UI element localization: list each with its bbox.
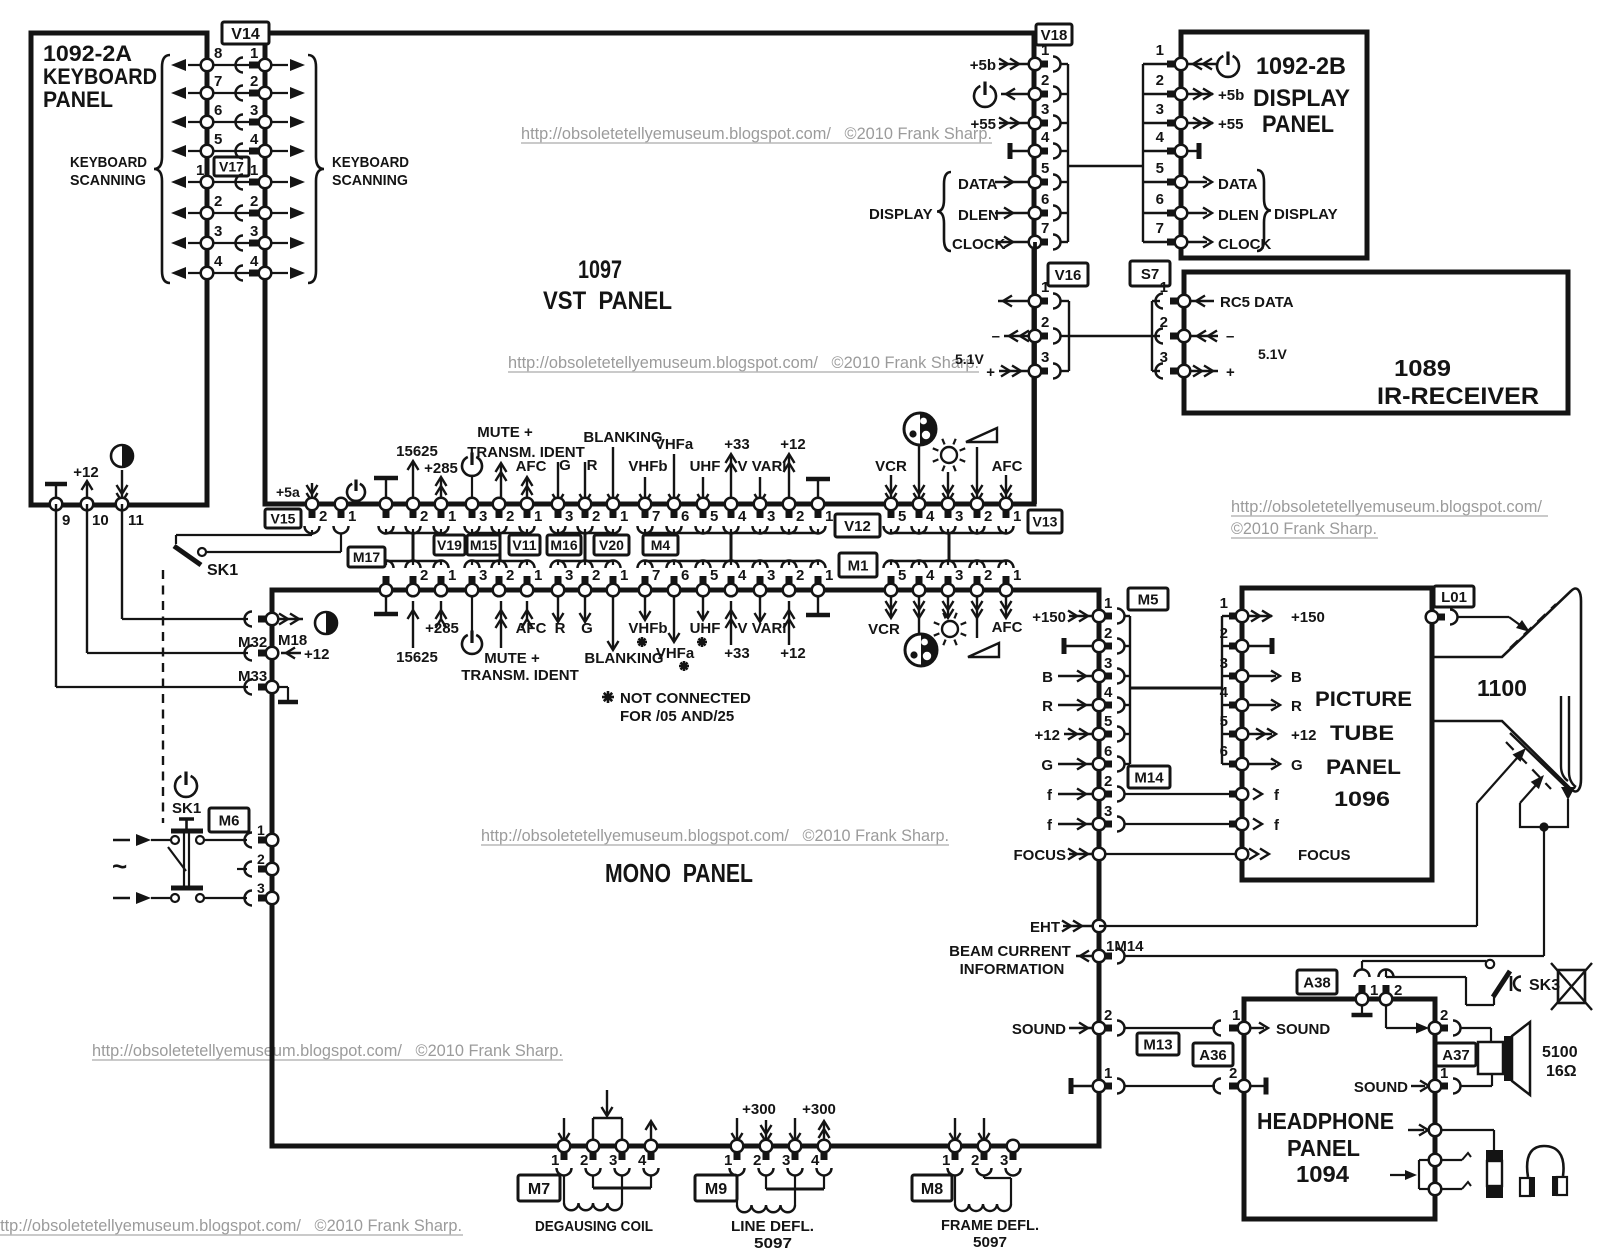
svg-text:+12: +12 <box>1291 727 1316 744</box>
wire M33 ground stub <box>278 686 288 688</box>
connector A37 label box <box>1436 1043 1476 1066</box>
DISPLAY tie stub 1 <box>1143 63 1170 65</box>
svg-text:B: B <box>1291 669 1302 686</box>
svg-text:DATA: DATA <box>958 176 998 193</box>
svg-text:AFC: AFC <box>992 458 1023 475</box>
svg-text:+33: +33 <box>724 436 749 453</box>
arrow AFC down bottom <box>1005 590 1007 616</box>
PT pin bar f0 <box>1229 791 1238 798</box>
bottom strip pin bar x527 <box>524 576 531 586</box>
V18 tie stub 4 <box>1060 150 1068 152</box>
S7 pin 3 <box>1178 365 1191 378</box>
degauss loop M7 <box>592 1118 594 1146</box>
bottom strip pin x558 <box>552 584 565 597</box>
arrow blanking down top <box>612 447 614 503</box>
top strip socket arc x613 <box>606 526 621 534</box>
svg-text:HEADPHONE: HEADPHONE <box>1257 1108 1394 1134</box>
svg-text:DLEN: DLEN <box>1218 207 1259 224</box>
svg-text:R: R <box>1042 698 1053 715</box>
M5 tie stub 4 <box>1124 704 1130 706</box>
svg-text:2: 2 <box>319 508 327 525</box>
connector M6 label box <box>209 808 249 832</box>
top strip socket arc x703 <box>696 526 711 534</box>
A37 socket arc 1 <box>1453 1079 1461 1094</box>
brace keyboard scanning left <box>154 55 170 283</box>
svg-text:http://obsoletetellyemuseum.bl: http://obsoletetellyemuseum.blogspot.com… <box>481 827 949 845</box>
connector M14 label box <box>1128 766 1170 788</box>
arrow out left row 3 <box>188 121 207 123</box>
bottom strip pin x789 <box>783 584 796 597</box>
arrow blanking down bottom <box>612 590 614 648</box>
arrow f into M14-3 <box>1058 823 1093 825</box>
arrow out right row 7 <box>265 242 288 244</box>
bottom strip pin x703 <box>697 584 710 597</box>
svg-text:FOCUS: FOCUS <box>1298 847 1351 864</box>
A37 pin bar 1 <box>1439 1083 1448 1090</box>
V16 pin 2 <box>1029 330 1042 343</box>
svg-text:R: R <box>1291 698 1302 715</box>
wire M9-4 down <box>823 1175 825 1189</box>
M5 pin 1 <box>1093 610 1106 623</box>
svg-text:1: 1 <box>1156 42 1164 59</box>
wire keyboard row 4 <box>207 150 265 152</box>
M5 pin 2 <box>1093 640 1106 653</box>
svg-text:1: 1 <box>1440 1065 1448 1082</box>
wire M13-2 to A36-1 <box>1124 1027 1215 1029</box>
M5 pin bar 1 <box>1103 613 1112 620</box>
svg-text:4: 4 <box>811 1152 820 1169</box>
bottom strip socket arc x919 <box>912 561 927 569</box>
arrow +12 up pin10 <box>86 481 88 504</box>
connector 1M14 socket arc <box>1117 949 1125 964</box>
M7 pin bar 1 <box>561 1150 568 1160</box>
svg-text:~: ~ <box>112 851 127 881</box>
M8 pin bar 2 <box>981 1150 988 1160</box>
svg-text:+55: +55 <box>971 116 996 133</box>
svg-text:3: 3 <box>250 223 258 240</box>
line deflection coil symbol <box>737 1205 795 1212</box>
svg-text:1097: 1097 <box>578 256 622 284</box>
connector M17 label box <box>348 547 385 567</box>
top strip pin bar x472 <box>469 508 476 518</box>
arrow mute up bottom <box>500 601 502 648</box>
headphone jack plug <box>1486 1150 1503 1161</box>
symbol volume triangle bottom <box>968 643 999 657</box>
top strip socket arc x789 <box>782 526 797 534</box>
svg-text:1: 1 <box>1013 508 1021 525</box>
top strip pin bar x645 <box>642 508 649 518</box>
FOCUS pin mono <box>1093 848 1106 861</box>
contact SK1 c <box>171 894 179 902</box>
wire M14 pin 2 to PT <box>1124 793 1232 795</box>
pin bar row 5 <box>249 179 261 186</box>
svg-text:V11: V11 <box>512 537 536 553</box>
DISPLAY pin 6 <box>1175 207 1188 220</box>
switch SK1 actuator nub <box>179 817 194 821</box>
arrow afc up bottom <box>526 601 528 620</box>
M14 pin bar 3 <box>1103 821 1112 828</box>
bottom strip socket arc x386 <box>379 561 394 569</box>
arrow into V16 pin3 <box>999 370 1029 372</box>
ground bar M13-1 <box>1069 1078 1074 1094</box>
socket arc row 2 <box>236 86 243 101</box>
svg-text:NOT CONNECTED: NOT CONNECTED <box>620 690 751 707</box>
contact SK1 d <box>196 894 204 902</box>
bottom strip pin bar x645 <box>642 576 649 586</box>
wire M9 bridge <box>766 1188 824 1191</box>
bottom strip pin x413 <box>407 584 420 597</box>
svg-text:SK1: SK1 <box>207 562 238 579</box>
top strip socket arc x1006 <box>999 526 1014 534</box>
top strip pin bar x919 <box>916 508 923 518</box>
svg-text:4: 4 <box>738 567 747 584</box>
arrow VHFa down bottom <box>673 590 675 640</box>
symbol brightness sun bottom <box>942 621 958 637</box>
arrow FOCUS into mono <box>1069 853 1093 855</box>
pin bar row 1 <box>249 62 261 69</box>
svg-text:3: 3 <box>1156 101 1164 118</box>
top strip pin bar x1006 <box>1003 508 1010 518</box>
svg-text:6: 6 <box>1041 191 1049 208</box>
top strip pin bar x674 <box>671 508 678 518</box>
symbol SK3 pushbutton <box>1510 976 1513 991</box>
picture tube dashed top <box>1510 604 1556 648</box>
arrow VCR down top <box>890 475 892 502</box>
top strip socket arc x645 <box>638 526 653 534</box>
arrow contrast down pin11 <box>121 470 123 502</box>
power symbol top x472 <box>462 457 482 476</box>
svg-text:5: 5 <box>1041 160 1049 177</box>
wire A37-2 to speaker <box>1460 1027 1491 1029</box>
svg-text:V VARI: V VARI <box>738 620 787 637</box>
arrow VHFa down top <box>673 454 675 503</box>
bottom strip pin bar x818 <box>815 576 822 586</box>
top strip socket arc x527 <box>520 526 535 534</box>
svg-text:5: 5 <box>898 508 906 525</box>
pin M33 <box>266 681 279 694</box>
M9 pin bar 1 <box>734 1150 741 1160</box>
contact SK1 a <box>171 836 179 844</box>
svg-text:SOUND: SOUND <box>1354 1079 1408 1096</box>
arrow +285 up bottom <box>440 601 442 620</box>
DISPLAY tie stub 2 <box>1143 93 1170 95</box>
contact SK1 upper <box>198 548 206 556</box>
cable bundle link x585 <box>584 533 587 561</box>
arrow DLEN into V18 pin6 <box>995 212 1029 214</box>
A38 socket arc 2 <box>1379 970 1394 977</box>
power symbol SK1 <box>175 776 197 797</box>
svg-text:4: 4 <box>926 567 935 584</box>
bottom strip socket arc x891 <box>884 561 899 569</box>
arrow sun down top <box>947 472 949 502</box>
connector M8 label box <box>912 1175 952 1201</box>
bottom strip pin bar x891 <box>888 576 895 586</box>
top strip pin bar x891 <box>888 508 895 518</box>
svg-text:2: 2 <box>1041 72 1049 89</box>
bottom strip socket arc x1006 <box>999 561 1014 569</box>
svg-text:M14: M14 <box>1134 769 1164 786</box>
pin bar row 8 <box>249 270 261 277</box>
ground bar bottom x386 <box>385 590 387 612</box>
M5 pin bar 6 <box>1103 761 1112 768</box>
M8 pin 955 <box>949 1140 962 1153</box>
M14 pin bar 2 <box>1103 791 1112 798</box>
wire A38-2 to A37-2 <box>1385 1001 1387 1028</box>
ground bar top x818 <box>806 477 830 482</box>
PT pin bar 3 <box>1229 673 1238 680</box>
pin keyboard row 2 <box>201 87 214 100</box>
DISPLAY tie stub 6 <box>1143 212 1170 214</box>
svg-text:http://obsoletetellyemuseum.bl: http://obsoletetellyemuseum.blogspot.com… <box>508 354 979 372</box>
A36 pin 2 <box>1238 1080 1251 1093</box>
DISPLAY tie stub 7 <box>1143 241 1170 243</box>
svg-text:2: 2 <box>1104 625 1112 642</box>
pin headphone row1 <box>1429 1124 1442 1137</box>
bottom strip pin bar x760 <box>757 576 764 586</box>
svg-text:TUBE: TUBE <box>1330 722 1394 745</box>
svg-text:2: 2 <box>796 567 804 584</box>
symbol VCR DIN bottom <box>905 634 937 666</box>
top strip socket arc x441 <box>434 526 449 534</box>
star not connected VHFa <box>679 665 689 668</box>
panel 1097 VST PANEL box <box>265 33 1034 504</box>
M5 pin bar 2 <box>1103 643 1112 650</box>
M9 pin 824 <box>818 1140 831 1153</box>
arrow B into M5-3 <box>1058 675 1093 677</box>
top strip pin bar x818 <box>815 508 822 518</box>
wire jack switch contact 2 <box>1435 1188 1462 1190</box>
FOCUS pin PT <box>1236 848 1249 861</box>
wire keyboard row 2 <box>207 92 265 94</box>
wire keyboard row 1 <box>207 64 265 66</box>
svg-text:5.1V: 5.1V <box>955 351 984 367</box>
svg-text:3: 3 <box>1000 1152 1008 1169</box>
top strip pin bar x585 <box>582 508 589 518</box>
svg-text:–: – <box>992 328 1000 345</box>
M5 socket arc 2 <box>1117 639 1125 654</box>
svg-text:2: 2 <box>214 193 222 210</box>
svg-text:+150: +150 <box>1032 609 1066 626</box>
top strip pin bar x413 <box>410 508 417 518</box>
top strip pin x312 <box>306 498 319 511</box>
svg-text:5: 5 <box>710 508 718 525</box>
bottom strip socket arc x558 <box>551 561 566 569</box>
S7 pin bar 3 <box>1170 368 1180 375</box>
bottom strip socket arc x499 <box>492 561 507 569</box>
svg-text:http://obsoletetellyemuseum.bl: http://obsoletetellyemuseum.blogspot.com… <box>0 1217 462 1235</box>
bottom strip pin bar x472 <box>469 576 476 586</box>
pin bar row 2 <box>249 90 261 97</box>
top strip pin x919 <box>913 498 926 511</box>
connector M5 label box <box>1128 588 1168 610</box>
arrow din down bottom <box>918 590 920 633</box>
connector V17 label box <box>214 157 249 176</box>
symbol brightness sun top <box>941 447 957 463</box>
pin keyboard row 8 <box>201 267 214 280</box>
svg-text:4: 4 <box>738 508 747 525</box>
L01 socket arc <box>1450 610 1458 625</box>
wire jack bracket <box>1419 1159 1435 1161</box>
cable tie PT side <box>1221 616 1223 764</box>
EHT pin <box>1093 920 1106 933</box>
svg-text:1094: 1094 <box>1296 1161 1349 1187</box>
svg-text:4: 4 <box>1156 129 1165 146</box>
bottom strip pin x613 <box>607 584 620 597</box>
pin vst row 2 <box>259 87 272 100</box>
svg-text:FRAME DEFL.: FRAME DEFL. <box>941 1217 1039 1234</box>
svg-text:11: 11 <box>128 512 144 529</box>
cable tie display side <box>1142 64 1144 242</box>
pin bar row 7 <box>249 240 261 247</box>
arrow G down top <box>557 462 559 503</box>
bottom strip pin bar x789 <box>786 576 793 586</box>
svg-text:+5b: +5b <box>1218 87 1244 104</box>
arrow out left row 2 <box>188 92 207 94</box>
arrow +5a into V15 pin2 <box>311 483 313 502</box>
svg-text:2: 2 <box>1160 314 1168 331</box>
svg-text:6: 6 <box>1156 191 1164 208</box>
frame deflection coil symbol <box>955 1204 1011 1211</box>
wire SK1 to V15 pin1 <box>206 551 341 553</box>
wire SK1 to M6 pin1 <box>204 839 247 841</box>
DISPLAY pin 2 <box>1175 88 1188 101</box>
pin bar row 6 <box>249 210 261 217</box>
svg-text:FOR /05 AND/25: FOR /05 AND/25 <box>620 708 734 725</box>
svg-text:3: 3 <box>1041 349 1049 366</box>
switch SK1 bar top <box>171 829 203 834</box>
svg-text:1: 1 <box>534 508 542 525</box>
svg-text:3: 3 <box>565 508 573 525</box>
arrow DLEN display pin6 <box>1187 212 1207 214</box>
wire pin9 to M33 <box>55 504 57 687</box>
svg-text:3: 3 <box>955 567 963 584</box>
arrow AFC down top <box>1005 475 1007 502</box>
A36 pin bar 1 <box>1229 1025 1240 1032</box>
svg-text:3: 3 <box>214 223 222 240</box>
bottom strip pin x386 <box>380 584 393 597</box>
svg-text:7: 7 <box>652 508 660 525</box>
M7 pin 593 <box>587 1140 600 1153</box>
PT pin f1 <box>1236 788 1249 801</box>
svg-text:1: 1 <box>1041 279 1049 296</box>
arrow out of S7 pin2 <box>1190 335 1218 337</box>
connector M6 socket arc 2 <box>245 862 252 877</box>
bottom strip socket arc x760 <box>753 561 768 569</box>
svg-text:IR-RECEIVER: IR-RECEIVER <box>1377 383 1539 410</box>
bottom strip pin x472 <box>466 584 479 597</box>
svg-text:S7: S7 <box>1141 266 1159 283</box>
top strip pin x760 <box>754 498 767 511</box>
bottom strip pin bar x1006 <box>1003 576 1010 586</box>
svg-text:SCANNING: SCANNING <box>332 172 408 189</box>
symbol volume triangle top <box>966 428 997 442</box>
connector V14 label box <box>222 22 269 44</box>
svg-text:V13: V13 <box>1033 514 1058 530</box>
top strip pin x499 <box>493 498 506 511</box>
svg-text:2: 2 <box>1104 773 1112 790</box>
svg-text:V VARI: V VARI <box>738 458 787 475</box>
wire pin11 to M18 <box>121 504 123 619</box>
svg-text:4: 4 <box>250 131 259 148</box>
panel 1092-2A KEYBOARD PANEL box <box>31 33 207 505</box>
M5 tie stub 1 <box>1124 615 1130 617</box>
connector M1 label box <box>839 553 877 577</box>
PT pin 1 <box>1236 610 1249 623</box>
picture tube 1100 outline <box>1432 589 1581 792</box>
M5 socket arc 4 <box>1117 698 1125 713</box>
wire M9-2 down <box>765 1175 767 1189</box>
pin M18 <box>266 613 279 626</box>
wire pin10 to M32 <box>86 504 88 653</box>
svg-text:SK1: SK1 <box>172 800 201 817</box>
bottom strip socket arc x977 <box>970 561 985 569</box>
wire M9-1 down <box>736 1175 738 1205</box>
socket arc row 7 <box>236 236 243 251</box>
socket arc row 1 <box>236 58 243 73</box>
connector V15 label box <box>265 509 301 528</box>
svg-text:VHFa: VHFa <box>656 645 695 662</box>
M8 pin bar 3 <box>1010 1150 1017 1160</box>
svg-text:DEGAUSING COIL: DEGAUSING COIL <box>535 1218 653 1235</box>
svg-text:3: 3 <box>609 1152 617 1169</box>
bottom strip pin x818 <box>812 584 825 597</box>
V18 pin bar 7 <box>1039 239 1048 246</box>
svg-text:2: 2 <box>250 193 258 210</box>
svg-text:4: 4 <box>1104 684 1113 701</box>
top strip pin x386 <box>380 498 393 511</box>
svg-text:PANEL: PANEL <box>1326 756 1401 779</box>
pin headphone row3 <box>1429 1183 1442 1196</box>
M7 pin bar 4 <box>648 1150 655 1160</box>
svg-text:4: 4 <box>214 253 223 270</box>
arrow headphone out row1 <box>1408 1129 1424 1131</box>
top strip pin bar x731 <box>728 508 735 518</box>
svg-text:G: G <box>581 620 593 637</box>
svg-text:+: + <box>1226 364 1235 381</box>
arrow out of V16 pin2 <box>1004 335 1029 337</box>
pin 10 keyboard <box>81 498 94 511</box>
V18 tie stub 5 <box>1060 181 1068 183</box>
pin keyboard row 7 <box>201 237 214 250</box>
bottom strip pin bar x499 <box>496 576 503 586</box>
cable bundle link x949 <box>948 533 951 561</box>
svg-text:1: 1 <box>1104 1065 1112 1082</box>
arrow out left row 1 <box>188 64 207 66</box>
svg-text:KEYBOARD: KEYBOARD <box>70 154 147 171</box>
M7 socket arc 1 <box>557 1168 572 1176</box>
svg-text:INFORMATION: INFORMATION <box>960 961 1065 978</box>
arrow +55 into V18 pin3 <box>999 122 1029 124</box>
svg-text:KEYBOARD: KEYBOARD <box>332 154 409 171</box>
svg-text:8: 8 <box>214 45 222 62</box>
arrow out right row 2 <box>265 92 288 94</box>
top strip pin bar x441 <box>438 508 445 518</box>
svg-text:2: 2 <box>1440 1007 1448 1024</box>
pin M6-1 <box>266 834 279 847</box>
V18 tie stub 6 <box>1060 212 1068 214</box>
svg-text:5: 5 <box>710 567 718 584</box>
A36 pin bar 2 <box>1229 1083 1240 1090</box>
pin headphone row2 <box>1429 1154 1442 1167</box>
top strip pin x645 <box>639 498 652 511</box>
svg-text:M13: M13 <box>1143 1036 1172 1053</box>
cable bundle link x731 <box>730 533 733 561</box>
arrow M9-3 down <box>794 1118 796 1140</box>
connector M33 pin bar <box>258 684 268 691</box>
svg-text:SOUND: SOUND <box>1276 1021 1330 1038</box>
V16 pin 1 <box>1029 295 1042 308</box>
V16 tie stub 1 <box>1060 300 1069 302</box>
